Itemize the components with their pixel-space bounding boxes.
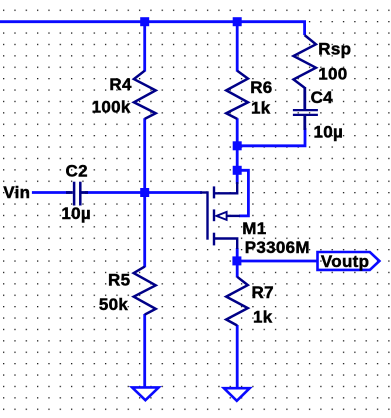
capacitor C4 plates [293, 109, 318, 111]
svg-text:C2: C2 [66, 162, 88, 181]
junction output node (source/R7/Voutp) [232, 256, 241, 265]
svg-text:C4: C4 [311, 88, 334, 107]
svg-text:R7: R7 [252, 283, 274, 302]
wire R7 top lead [236, 261, 239, 277]
wire R5 bottom lead to ground [143, 314, 146, 387]
svg-text:Vin: Vin [3, 183, 30, 202]
wire R4 bottom lead to node A [143, 118, 146, 192]
wire top power rail [0, 22, 305, 35]
svg-text:M1: M1 [242, 219, 266, 238]
wire R5 top lead [143, 193, 146, 268]
resistor Rsp [294, 35, 316, 88]
M1 source stub [214, 239, 237, 250]
wire M1 body jog to drain node [237, 170, 248, 216]
wire node A to M1 gate [145, 191, 202, 194]
svg-text:100k: 100k [92, 98, 131, 117]
wire C2 to node A [85, 191, 145, 194]
resistor R6 [226, 71, 248, 119]
svg-text:100: 100 [318, 65, 347, 84]
wire M1 source to output node [236, 248, 239, 261]
M1 drain stub [214, 182, 237, 193]
resistor R5 [134, 267, 156, 315]
wire C4 bottom tap to R6 bottom node [237, 128, 305, 146]
svg-text:1k: 1k [253, 308, 273, 327]
svg-text:1k: 1k [251, 99, 271, 118]
capacitor C4 lead bottom [303, 116, 306, 130]
svg-text:10µ: 10µ [61, 204, 91, 223]
node A junction (R4/R5/C2/gate) [140, 188, 149, 197]
ground (R7) [224, 388, 250, 401]
wire R7 bottom lead to ground [236, 325, 239, 388]
svg-text:R4: R4 [109, 75, 132, 94]
capacitor C2 lead left [66, 191, 73, 194]
svg-text:50k: 50k [99, 295, 129, 314]
resistor R7 [226, 277, 248, 326]
wire Vin to C2 [32, 191, 70, 194]
resistor R4 [134, 71, 156, 119]
wire R6 bottom lead through junctions to M1 drain [236, 118, 239, 184]
svg-text:P3306M: P3306M [245, 238, 310, 257]
M1 body stub line [227, 215, 241, 217]
wire output node to Voutp flag [237, 260, 317, 263]
M1 channel segment middle [213, 209, 215, 221]
ground (R5) [132, 387, 159, 400]
M1 gate bar [206, 191, 208, 239]
M1 gate lead [200, 191, 208, 193]
capacitor C4 lead top [303, 87, 306, 109]
junction rail-R4 [140, 17, 149, 26]
svg-text:Rsp: Rsp [318, 39, 351, 58]
output flag Voutp [318, 252, 380, 270]
capacitor C2 plates [73, 182, 76, 206]
M1 channel segment top [213, 186, 215, 198]
capacitor C2 lead right [82, 191, 89, 194]
junction M1 drain-body node [233, 166, 242, 175]
svg-text:R5: R5 [108, 271, 130, 290]
transistor M1 [200, 182, 240, 249]
junction rail-R6 [233, 17, 242, 26]
M1 channel segment bottom [213, 233, 215, 246]
junction R6-C4 node [233, 141, 242, 150]
svg-text:R6: R6 [250, 78, 272, 97]
svg-text:10µ: 10µ [314, 123, 344, 142]
svg-text:Voutp: Voutp [321, 252, 369, 271]
wire R4 top lead [143, 22, 146, 72]
M1 body arrow [216, 212, 226, 220]
wire R6 top lead [236, 22, 239, 72]
